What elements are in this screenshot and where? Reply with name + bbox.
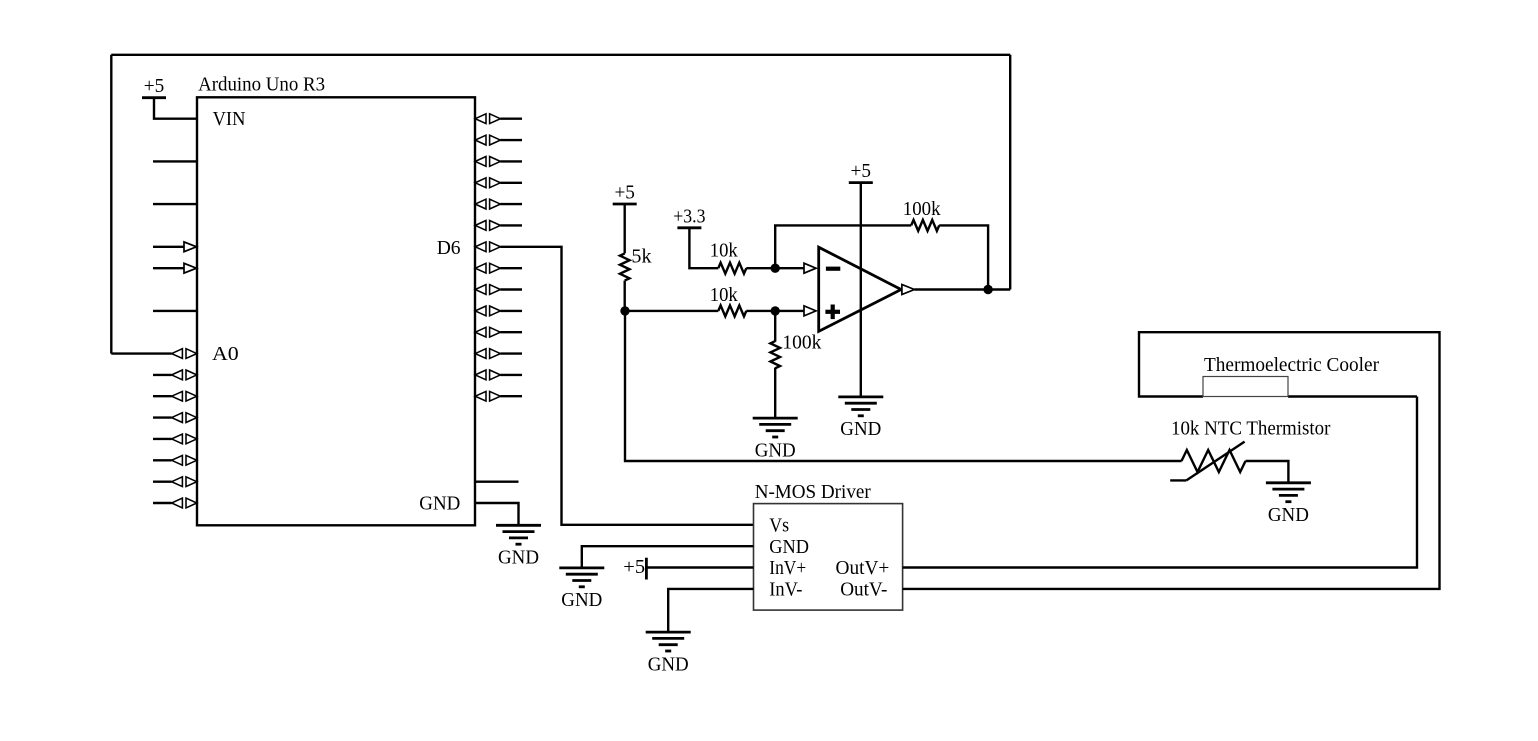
svg-text:+5: +5 <box>614 182 635 204</box>
svg-text:GND: GND <box>648 653 689 675</box>
svg-text:GND: GND <box>840 418 881 440</box>
svg-text:InV-: InV- <box>769 579 802 601</box>
svg-text:GND: GND <box>1268 504 1309 526</box>
svg-text:GND: GND <box>498 547 539 569</box>
svg-text:5k: 5k <box>631 246 651 268</box>
svg-text:GND: GND <box>755 439 796 461</box>
svg-text:InV+: InV+ <box>769 557 806 579</box>
svg-text:+3.3: +3.3 <box>673 205 705 227</box>
svg-text:OutV+: OutV+ <box>836 557 890 579</box>
svg-text:+5: +5 <box>851 160 872 182</box>
svg-text:GND: GND <box>769 536 809 558</box>
svg-text:N-MOS Driver: N-MOS Driver <box>755 481 871 503</box>
svg-text:10k: 10k <box>710 240 738 262</box>
svg-text:Thermoelectric Cooler: Thermoelectric Cooler <box>1204 354 1379 376</box>
svg-text:OutV-: OutV- <box>840 579 887 601</box>
svg-text:GND: GND <box>419 492 460 514</box>
svg-text:10k: 10k <box>710 284 738 306</box>
svg-text:+5: +5 <box>623 556 645 578</box>
svg-text:A0: A0 <box>212 343 239 365</box>
svg-text:100k: 100k <box>903 198 941 220</box>
svg-text:D6: D6 <box>437 237 461 259</box>
svg-text:VIN: VIN <box>213 108 246 130</box>
svg-text:10k NTC Thermistor: 10k NTC Thermistor <box>1171 417 1331 439</box>
svg-text:+5: +5 <box>144 75 165 97</box>
svg-text:Vs: Vs <box>769 514 789 536</box>
svg-text:100k: 100k <box>782 332 821 354</box>
svg-text:GND: GND <box>561 589 602 611</box>
svg-text:Arduino Uno R3: Arduino Uno R3 <box>198 74 325 96</box>
